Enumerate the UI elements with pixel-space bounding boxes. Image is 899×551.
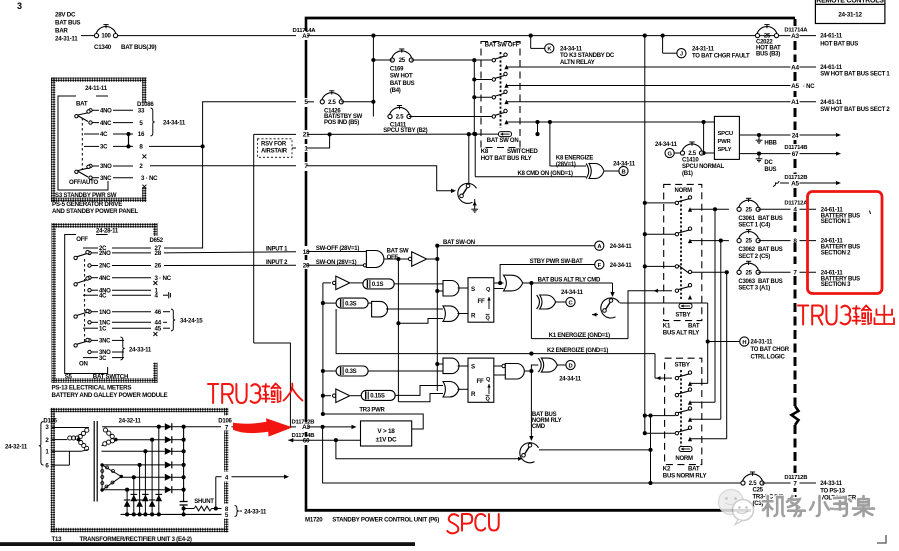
svg-text:25: 25 [746, 270, 753, 276]
svg-text:67: 67 [792, 151, 799, 158]
OR gate G3 [504, 275, 523, 291]
svg-text:24-33-11: 24-33-11 [129, 347, 152, 354]
rotary input arrow wire from pin7 [307, 166, 451, 191]
svg-text:4NC: 4NC [100, 121, 112, 127]
wire SPCU pin21 to airstair rsv [254, 133, 296, 135]
svg-text:A5: A5 [791, 180, 799, 187]
wire A3 junction down to K2/C25 line [323, 427, 650, 483]
vertical link wires K1-K2 [714, 209, 716, 402]
svg-text:(B4): (B4) [390, 88, 401, 94]
TR3 rail tap [321, 412, 325, 416]
svg-text:BAT SW-ON: BAT SW-ON [443, 240, 475, 246]
svg-text:24-32-11: 24-32-11 [119, 417, 142, 424]
svg-text:24-34-11: 24-34-11 [163, 120, 186, 127]
XOR D gate [541, 358, 557, 372]
delay 0.3S b [323, 370, 336, 372]
K1 contacts [675, 196, 692, 205]
svg-text:K8: K8 [481, 148, 489, 155]
arrow down into rotary R2 [612, 283, 614, 292]
battery bus breaker C3062 [737, 230, 760, 245]
svg-text:28V DC: 28V DC [55, 12, 76, 19]
K2 left rail [650, 416, 652, 483]
wire K8 row4 into sply box [702, 120, 706, 124]
svg-text:SPCU NORMAL: SPCU NORMAL [682, 164, 725, 170]
bottom black bar [0, 542, 415, 546]
svg-text:100: 100 [101, 34, 111, 40]
bottom bus pin5 [121, 513, 223, 515]
rotary R2 left arrow [592, 314, 598, 316]
svg-text:2.5: 2.5 [328, 100, 337, 106]
svg-text:3 · NC: 3 · NC [141, 175, 158, 182]
stray tick mark [870, 211, 871, 215]
svg-text:C3063: C3063 [738, 279, 755, 285]
svg-text:K2: K2 [663, 466, 671, 473]
BAT BUS ALT RLY CMD wire [523, 282, 613, 284]
svg-text:POS IND (B5): POS IND (B5) [324, 120, 359, 126]
circled G SPCU NORMAL [665, 148, 674, 157]
svg-text:24-34-11: 24-34-11 [559, 376, 582, 382]
S3 inner box [58, 96, 108, 190]
svg-text:24-31-11: 24-31-11 [692, 46, 715, 52]
K8 linkage dotted [500, 52, 502, 128]
wire 27 up to S3 pin8 rail [164, 102, 296, 248]
svg-text:BUS: BUS [764, 167, 776, 173]
svg-text:16: 16 [138, 131, 145, 138]
S3 linkage dashed [81, 118, 83, 170]
B1 out to BAT SW-ON node [427, 258, 438, 260]
battery bus breaker C3063 [737, 261, 760, 276]
svg-text:BAT: BAT [688, 466, 700, 473]
svg-text:4NC: 4NC [99, 276, 111, 282]
pin 1 riser to 21 line [307, 134, 330, 148]
svg-text:33: 33 [138, 108, 145, 115]
svg-text:45: 45 [155, 325, 162, 332]
svg-text:34-24-15: 34-24-15 [180, 318, 203, 325]
svg-text:3 · NC: 3 · NC [155, 275, 172, 282]
wire pin21 to K8 coil [307, 133, 499, 135]
A7 hot battery bus wire [307, 35, 791, 37]
sply output 67 with DC BUS ground [739, 153, 790, 155]
svg-text:BAT BUS: BAT BUS [390, 81, 415, 87]
S5 linkage dashed [84, 259, 86, 344]
svg-text:S: S [471, 364, 475, 371]
svg-text:K8 ENERGIZE: K8 ENERGIZE [556, 155, 594, 161]
svg-text:C169: C169 [390, 67, 404, 73]
R3 left input arrow [515, 458, 518, 460]
K8 coil [499, 132, 512, 137]
svg-text:AND STANDBY POWER PANEL: AND STANDBY POWER PANEL [52, 208, 139, 215]
pin 4 wire [222, 472, 232, 482]
pin 4 arrow wire into SPCU direction [232, 476, 287, 478]
svg-text:STBY PWR SW-BAT: STBY PWR SW-BAT [530, 259, 583, 265]
svg-text:BAT BUS(J9): BAT BUS(J9) [121, 44, 156, 51]
svg-text:4C: 4C [100, 132, 108, 138]
svg-text:25: 25 [399, 58, 406, 64]
svg-text:DC: DC [764, 160, 773, 166]
svg-text:24-31-11: 24-31-11 [55, 36, 78, 43]
K2 ENERGIZE wire [438, 353, 655, 355]
svg-text:0.3S: 0.3S [345, 301, 357, 307]
svg-text:24-34-11: 24-34-11 [610, 263, 633, 269]
svg-text:BAT: BAT [688, 322, 700, 329]
svg-text:3NO: 3NO [100, 164, 112, 170]
svg-text:24: 24 [792, 132, 799, 139]
rail from A7 down to CB C169/C1426/C1411 [372, 36, 374, 117]
bracket 24-33-11 right [235, 506, 239, 517]
svg-text:BAT BUS: BAT BUS [758, 279, 783, 285]
svg-text:TO K3 STANDBY DC: TO K3 STANDBY DC [560, 53, 615, 59]
BAT SW-ON wire to circled A [437, 246, 594, 259]
svg-text:PWR: PWR [718, 139, 732, 145]
V>18 comparator box [361, 421, 412, 446]
SPCU box bottom border [305, 509, 751, 512]
svg-text:BAT: BAT [76, 101, 88, 108]
svg-text:D11714A: D11714A [293, 28, 317, 34]
svg-text:TO PS-13: TO PS-13 [820, 488, 845, 494]
svg-text:24-61-11: 24-61-11 [820, 100, 843, 106]
svg-text:21: 21 [303, 132, 310, 139]
A3 input wire to V>18 [307, 426, 352, 428]
circled H bat chgr ctrl [707, 303, 709, 383]
delay 0.15S [351, 395, 362, 397]
S5 contacts [83, 247, 98, 249]
svg-text:28: 28 [155, 250, 162, 257]
svg-text:SW HOT BAT BUS SECT 1: SW HOT BAT BUS SECT 1 [820, 72, 890, 78]
rotary relay R2 [601, 298, 620, 318]
A3 out hot bat bus [800, 35, 817, 37]
rsv vertical wire [253, 134, 255, 343]
wire 60 to rotary R3 [336, 440, 515, 459]
K8 ENERGIZE wire [550, 165, 586, 167]
svg-text:TR3 PWR: TR3 PWR [359, 407, 385, 413]
60 input wire [296, 439, 361, 441]
S3 bracket 24-34-11 [151, 108, 155, 136]
svg-text:TO BAT CHGR FAULT: TO BAT CHGR FAULT [692, 54, 750, 60]
circled D [566, 360, 575, 369]
svg-text:24-34-11: 24-34-11 [560, 47, 583, 53]
svg-text:K2 ENERGIZE (GND=1): K2 ENERGIZE (GND=1) [547, 348, 608, 354]
svg-text:SHUNT: SHUNT [194, 499, 214, 505]
hot bus rail to K1/K2 contacts [644, 36, 646, 434]
rotary relay R3 [520, 443, 539, 463]
AND gate S2 [443, 358, 459, 374]
svg-text:BUS NORM RLY: BUS NORM RLY [663, 473, 707, 480]
svg-text:A5: A5 [791, 83, 799, 90]
svg-text:BUS (B3): BUS (B3) [756, 51, 780, 57]
red label TRU3 output (Chinese) [798, 306, 850, 325]
primary winding wye [52, 427, 75, 429]
svg-text:REMOTE CONTROLS: REMOTE CONTROLS [816, 0, 884, 5]
svg-text:SECT 2 (C5): SECT 2 (C5) [738, 254, 770, 260]
S5 inner box [65, 235, 108, 374]
svg-text:CTRL LOGIC: CTRL LOGIC [751, 355, 786, 361]
XOR C gate [530, 283, 532, 339]
svg-text:D: D [569, 363, 573, 369]
svg-text:±1V DC: ±1V DC [376, 437, 397, 444]
svg-text:1NO: 1NO [99, 310, 111, 316]
G1 out wire [384, 258, 412, 260]
svg-text:FF: FF [478, 298, 486, 305]
svg-text:· NC: · NC [803, 84, 815, 90]
svg-text:4NO: 4NO [100, 109, 112, 115]
svg-text:24-34-11: 24-34-11 [613, 162, 636, 168]
svg-text:SECTION 1: SECTION 1 [821, 219, 851, 225]
SPCU right border dashed [794, 19, 797, 26]
svg-text:K1 ENERGIZE (GND=1): K1 ENERGIZE (GND=1) [549, 333, 610, 339]
transformer core [93, 421, 95, 502]
pins 18/20 input wires [307, 251, 366, 253]
svg-text:OFF: OFF [76, 236, 88, 243]
T13 right pins D106 [221, 416, 233, 431]
circled B [619, 166, 628, 175]
svg-text:2NC: 2NC [99, 264, 111, 270]
svg-text:0.15S: 0.15S [370, 394, 385, 400]
delay 0.3S a [323, 302, 336, 304]
svg-text:A3: A3 [791, 33, 799, 40]
svg-text:HOT BAT BUS RLY: HOT BAT BUS RLY [481, 155, 532, 162]
SPCU PWR SPLY box [714, 116, 739, 159]
K2 coil input arrow [655, 377, 672, 379]
svg-text:G: G [667, 151, 672, 157]
K2 relay dashed box [665, 358, 702, 464]
wire pin8 to rail [149, 145, 203, 147]
AND gate G1 bat sw off [363, 264, 366, 267]
svg-text:ALTN RELAY: ALTN RELAY [560, 60, 595, 66]
K8 left rail from C169 [473, 60, 475, 134]
svg-text:24-34-11: 24-34-11 [610, 244, 633, 250]
circuit breaker C169 25 SW HOT BAT BUS (B4) [390, 49, 413, 64]
svg-text:SW-OFF (28V=1): SW-OFF (28V=1) [316, 246, 359, 252]
S3 contacts [89, 109, 92, 112]
svg-text:2.5: 2.5 [688, 151, 697, 157]
svg-text:3C: 3C [99, 356, 107, 362]
svg-text:C1340: C1340 [94, 44, 112, 51]
pin 7 output wire (TRU3 input feed) [184, 426, 221, 428]
svg-text:A4: A4 [791, 64, 799, 71]
svg-text:STBY: STBY [675, 313, 690, 319]
S5 pin numbers D652 [153, 236, 158, 363]
K1 contact out wires [690, 208, 729, 210]
rotary R2 out wire to K1 [620, 302, 708, 304]
svg-text:BAT SW: BAT SW [387, 249, 409, 255]
watermark text 机务小书桌 [763, 496, 874, 516]
svg-text:D11712A: D11712A [784, 201, 808, 207]
inverter I2 [323, 395, 331, 397]
K1 relay dashed box [664, 184, 702, 320]
svg-text:3: 3 [17, 1, 22, 11]
svg-text:CMD: CMD [532, 424, 546, 430]
arrow into 60 [288, 439, 296, 441]
wire pin2 to SPCU pin7 [150, 165, 296, 167]
sply output 24 with HBB ground [739, 134, 790, 136]
FF1 Q out to F and OR G3 [494, 282, 504, 284]
bracket 34-24-15 [163, 311, 170, 313]
wire T13 pin7 to SPCU A3 (under red arrow) [232, 426, 297, 428]
svg-text:S: S [471, 286, 475, 293]
svg-text:TO BAT CHGR: TO BAT CHGR [751, 347, 790, 353]
svg-text:46: 46 [155, 309, 162, 316]
XOR gate K8 energize [589, 164, 604, 179]
svg-text:INPUT 2: INPUT 2 [266, 260, 288, 266]
svg-text:26: 26 [155, 263, 162, 270]
rectifier diodes [165, 423, 172, 430]
K1 coil [679, 304, 692, 309]
wire K8 row4 taps [537, 122, 539, 134]
svg-text:SW HOT: SW HOT [390, 74, 413, 80]
capacitor [180, 501, 188, 503]
TR3 PWR rail [322, 283, 324, 414]
circuit breaker C1411 2.5 SPCU STBY (B2) [388, 106, 411, 121]
K8 CMD ON wire [474, 134, 476, 177]
svg-text:STANDBY POWER CONTROL UNIT (P6: STANDBY POWER CONTROL UNIT (P6) [332, 517, 439, 524]
svg-text:AIRSTAIR: AIRSTAIR [261, 149, 288, 155]
pin4 termination symbol [163, 294, 168, 296]
bracket 24-33-11 for 3NC/3NO/3C [121, 337, 125, 360]
svg-text:(28V=1): (28V=1) [556, 162, 576, 168]
circled F [595, 260, 604, 269]
svg-text:4C: 4C [99, 293, 107, 299]
svg-text:24-11-11: 24-11-11 [85, 85, 108, 92]
circled A [595, 241, 604, 250]
buffer B1 [408, 252, 426, 267]
svg-text:SW-ON (28V=1): SW-ON (28V=1) [316, 260, 357, 266]
svg-text:BAT BUS: BAT BUS [758, 216, 783, 222]
S3 pin wires and numbers D1086 [142, 103, 147, 187]
svg-text:24-31-11: 24-31-11 [751, 340, 774, 346]
svg-text:24-31-12: 24-31-12 [838, 12, 862, 19]
circuit breaker C1340 100 BAT BUS(J9) [94, 25, 117, 40]
svg-text:SECT 3 (A1): SECT 3 (A1) [738, 286, 770, 292]
svg-text:BAT BUS ALT RLY CMD: BAT BUS ALT RLY CMD [538, 278, 601, 284]
S5 switch arms [74, 251, 89, 260]
right border break symbol [792, 406, 799, 425]
svg-text:1C: 1C [99, 326, 107, 332]
svg-text:SPCU STBY (B2): SPCU STBY (B2) [383, 128, 427, 134]
svg-text:B: B [622, 169, 626, 175]
wire SPCU pin1 stub [292, 147, 296, 149]
rsv label box dashed [258, 139, 293, 158]
svg-text:3NC: 3NC [99, 339, 111, 345]
wire to C1340 [81, 35, 95, 37]
svg-text:2NO: 2NO [99, 251, 111, 257]
svg-text:25: 25 [746, 207, 753, 213]
circled C [566, 297, 575, 306]
svg-text:M1720: M1720 [305, 517, 323, 524]
circled J to bat chgr fault [662, 36, 664, 54]
svg-text:BAT BUS: BAT BUS [55, 20, 80, 27]
svg-text:24-33-11: 24-33-11 [244, 509, 267, 516]
K8 relay dashed box [481, 42, 520, 148]
OR gate R2b [443, 382, 459, 398]
svg-text:NORM: NORM [675, 456, 693, 462]
svg-text:24-61-11: 24-61-11 [820, 65, 843, 71]
svg-text:A1: A1 [791, 99, 799, 106]
svg-text:3NC: 3NC [100, 176, 112, 182]
watermark logo circles [719, 490, 754, 525]
S3 standby power switch panel box [51, 78, 147, 203]
bracket 24-32-11 left [39, 422, 44, 466]
K2 coil [679, 447, 692, 452]
svg-text:C3062: C3062 [738, 247, 755, 253]
R3 out wire to K2 coil [539, 449, 651, 451]
REMOTE CONTROLS reference box (cut at top) [815, 0, 885, 24]
feedback wire G2 [336, 309, 438, 354]
wire 28 INPUT 1 [164, 252, 296, 253]
diode output bus [183, 427, 185, 502]
svg-text:TRANSFORMER/RECTIFIER UNIT 3 (: TRANSFORMER/RECTIFIER UNIT 3 (E4-2) [80, 536, 192, 543]
svg-text:(B1): (B1) [682, 171, 693, 177]
T13 transformer rectifier unit box [51, 408, 229, 532]
svg-text:24-33-11: 24-33-11 [820, 481, 843, 487]
SPCU box top border [305, 17, 795, 20]
svg-text:18: 18 [303, 249, 310, 256]
rotary ground [474, 199, 476, 206]
K1 ENERGIZE wire [531, 338, 628, 340]
svg-text:PS-13 ELECTRICAL METERS: PS-13 ELECTRICAL METERS [52, 385, 132, 392]
svg-text:SWITCHED: SWITCHED [507, 148, 538, 155]
svg-text:0.3S: 0.3S [345, 369, 357, 375]
rotary relay K8 feedback [468, 134, 470, 184]
svg-text:OFF/AUTO: OFF/AUTO [69, 179, 99, 186]
svg-text:0.1S: 0.1S [372, 282, 384, 288]
AND gate G2 [372, 301, 388, 317]
svg-text:C1410: C1410 [682, 157, 699, 163]
BAT BUS NORM RLY CMD wire down [530, 369, 532, 437]
red label TRU3 input (Chinese) [208, 384, 260, 403]
svg-text:SPCU: SPCU [718, 131, 733, 137]
delay 0.1S [351, 282, 363, 284]
svg-text:K1: K1 [663, 322, 671, 329]
pin 8 and 5 labels [222, 504, 232, 519]
svg-text:K8 CMD ON (GND=1): K8 CMD ON (GND=1) [518, 171, 574, 177]
svg-text:NORM: NORM [675, 188, 693, 194]
svg-text:T13: T13 [52, 536, 63, 543]
inverter I1 [323, 282, 331, 284]
svg-text:SPLY: SPLY [718, 147, 732, 153]
svg-text:BAR: BAR [55, 28, 68, 35]
svg-text:2.5: 2.5 [396, 115, 405, 121]
svg-text:BAT BUS: BAT BUS [758, 247, 783, 253]
svg-text:V > 18: V > 18 [377, 428, 395, 435]
svg-text:PS-5 GENERATOR DRIVE: PS-5 GENERATOR DRIVE [52, 201, 122, 208]
svg-text:24-34-11: 24-34-11 [655, 142, 678, 148]
AND gate S1 [443, 281, 459, 297]
FF1 flip flop [468, 278, 494, 323]
svg-text:RSV FOR: RSV FOR [261, 142, 287, 148]
K2 left feeds [645, 415, 675, 417]
wire 26 INPUT 2 [164, 264, 296, 266]
svg-text:H: H [742, 340, 746, 346]
rsv wire to A3 line [254, 343, 291, 427]
svg-text:BAT SW ON: BAT SW ON [487, 138, 519, 144]
FF2 flip flop [468, 358, 494, 402]
K1 left feeds [645, 202, 675, 204]
svg-text:HBB: HBB [764, 140, 777, 146]
circuit breaker C25 2.5 TR3-DC IND [650, 482, 743, 484]
SPCU box left border [305, 19, 308, 31]
winding tap rails with dots [157, 425, 161, 429]
circled K to K3 standby relay [530, 36, 532, 49]
svg-text:24-28-11: 24-28-11 [96, 228, 119, 235]
svg-text:HOT BAT BUS: HOT BAT BUS [820, 42, 858, 48]
svg-text:SECT 1 (C4): SECT 1 (C4) [738, 223, 770, 229]
BAT SW-ON rail [436, 259, 438, 391]
K1 coil input arrow [649, 290, 672, 292]
svg-text:24-34-11: 24-34-11 [561, 290, 584, 296]
S5 battery switch module box [52, 223, 158, 383]
BAT SW OFF rail [397, 259, 399, 402]
svg-text:3C: 3C [100, 145, 108, 151]
